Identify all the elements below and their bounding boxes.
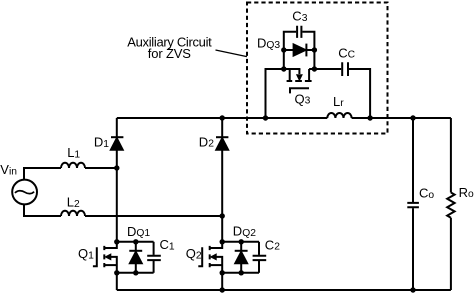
node L1-D1 junction [114, 165, 119, 170]
wire Vin bottom lead [24, 204, 61, 216]
transistor Q2 [198, 242, 222, 273]
transistor Q1 [93, 242, 117, 273]
node aux left rail [263, 115, 268, 120]
node DQ1 bottom [133, 270, 138, 275]
wire node B to Q2 leg [221, 216, 223, 242]
Q2 leg bottom bar [222, 272, 259, 274]
capacitor C1 [147, 242, 161, 273]
inductor L2 [61, 211, 85, 216]
node Q2 source [220, 270, 225, 275]
node Q3 source [281, 66, 286, 71]
svg-text:for ZVS: for ZVS [148, 46, 191, 61]
wire Q1 leg to bottom rail [116, 273, 118, 290]
auxiliary circuit dashed box [247, 3, 388, 134]
node DQ3 cathode [312, 47, 317, 52]
wire L2 to node B [85, 215, 222, 217]
wire Q2 leg to bottom rail [221, 273, 223, 290]
Q2 leg top bar [222, 241, 259, 243]
wire bottom rail [117, 289, 451, 291]
Q1 leg bottom bar [117, 272, 154, 274]
capacitor C2 [253, 242, 267, 273]
diode D2 [216, 118, 228, 216]
node Q2 bottom rail [220, 287, 225, 292]
node D2 top rail [220, 115, 225, 120]
diode DQ1 [129, 242, 142, 273]
wire node A to Q1 leg [116, 168, 118, 242]
inductor L1 [61, 163, 85, 168]
node aux right rail [367, 115, 372, 120]
diode D1 [111, 118, 124, 168]
node DQ3 anode [281, 47, 286, 52]
node Co bottom rail [410, 287, 415, 292]
node Q2 drain [220, 239, 225, 244]
node DQ2 top [239, 239, 244, 244]
inductor Lr [327, 113, 351, 118]
transistor Q3 [287, 69, 312, 93]
wire aux left riser [266, 69, 301, 118]
wire Vin top lead [24, 168, 61, 180]
node DQ1 top [133, 239, 138, 244]
capacitor Co [407, 118, 419, 290]
source Vin [12, 180, 37, 205]
wire aux right drop (Cc to rail) [309, 69, 370, 118]
node Q1 drain [114, 239, 119, 244]
diode DQ2 [235, 242, 248, 273]
capacitor Cc [342, 62, 348, 76]
wire L1 to node A [85, 167, 117, 169]
node DQ2 bottom [239, 270, 244, 275]
resistor Ro [447, 118, 454, 290]
wire top rail right (Lr to Ro corner) [352, 117, 451, 119]
Q1 leg top bar [117, 241, 154, 243]
diode DQ3 [284, 44, 315, 57]
pointer line to aux box [216, 50, 247, 57]
wire top rail left (D1 top to Lr) [117, 117, 327, 119]
node Q3 drain [312, 66, 317, 71]
node Q1 source [114, 270, 119, 275]
capacitor C3 [297, 26, 301, 38]
wire DQ3 right riser [302, 32, 314, 69]
node Co top rail [410, 115, 415, 120]
node L2-D2 junction [220, 213, 225, 218]
wire DQ3 left riser [284, 32, 296, 69]
